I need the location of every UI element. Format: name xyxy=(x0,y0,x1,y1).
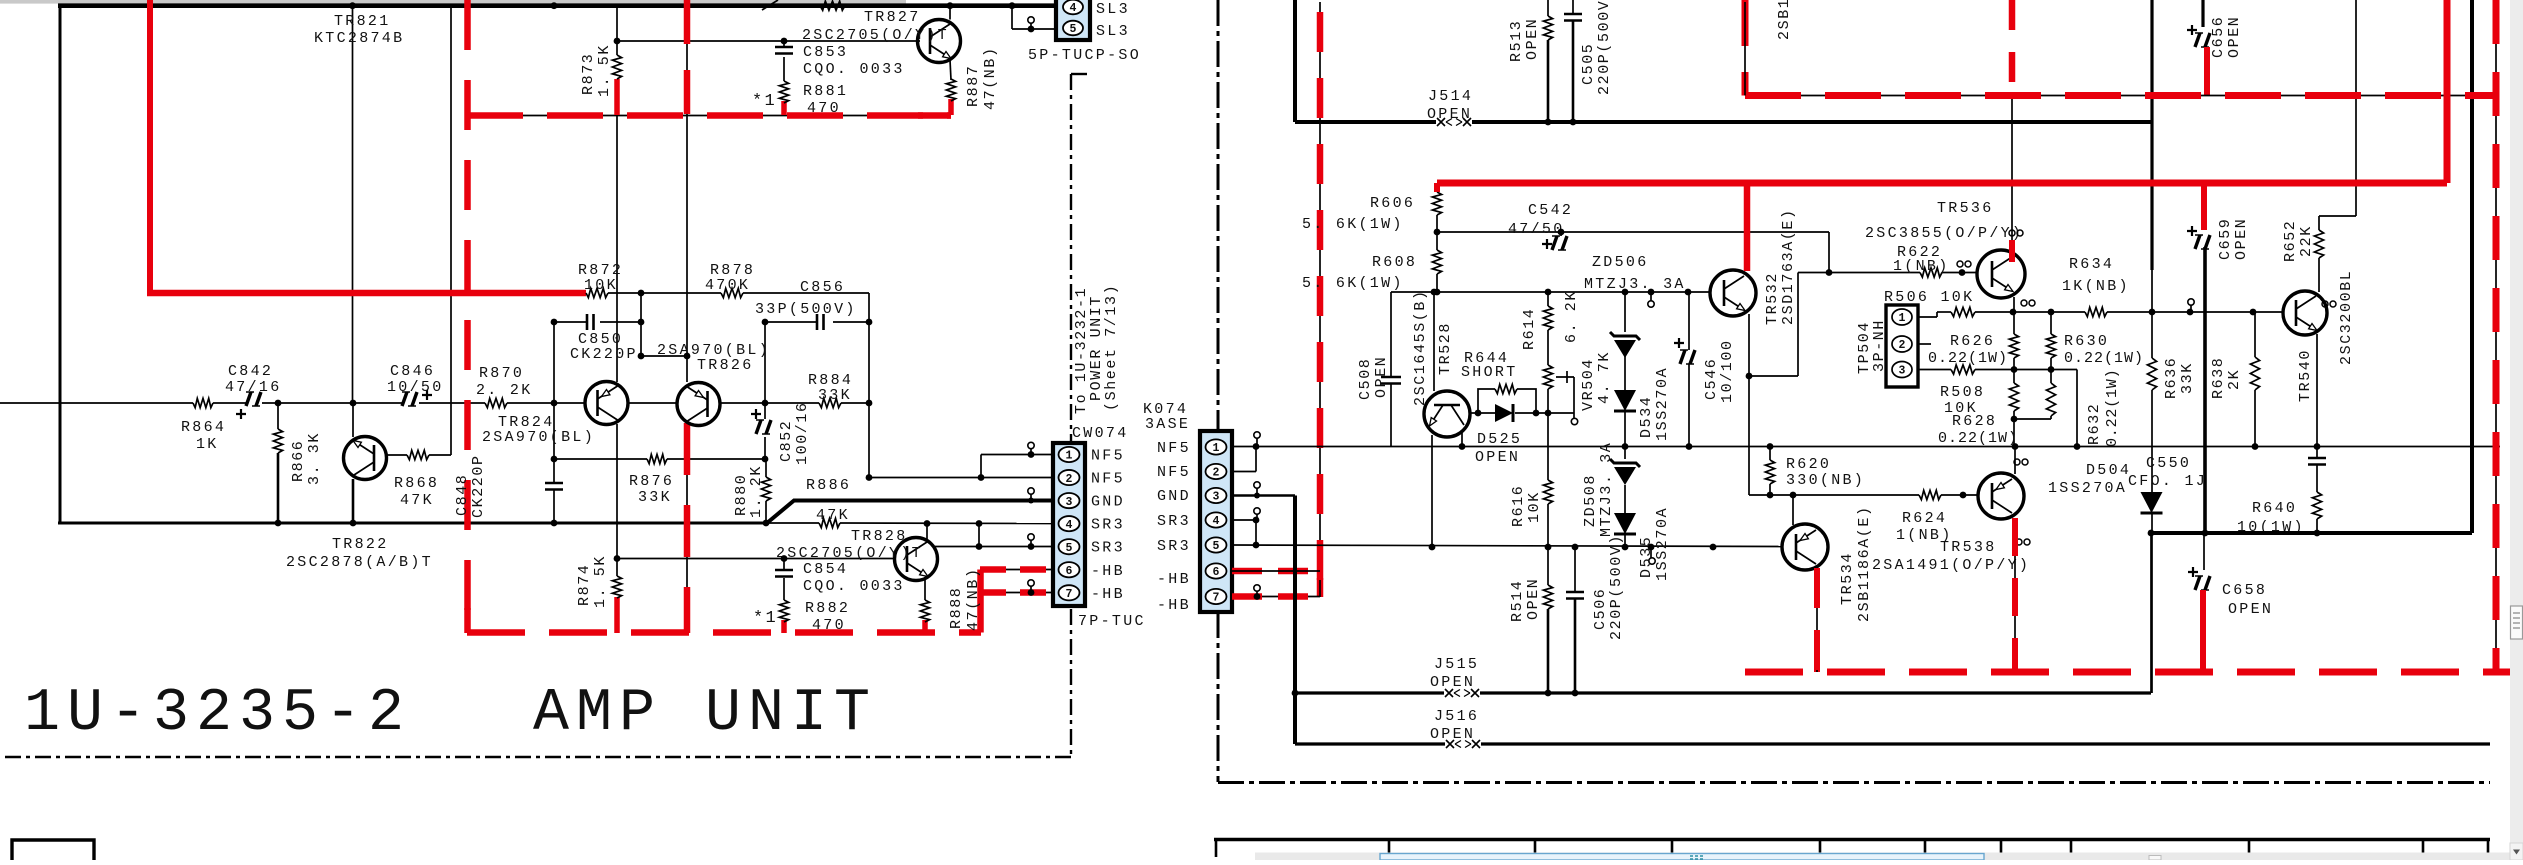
top edge gray strip (previous sheet remnant) xyxy=(0,0,906,4)
wire: R872 line y=293 black parts xyxy=(608,292,641,294)
svg-text:R887: R887 xyxy=(965,65,982,107)
svg-text:5: 5 xyxy=(1070,23,1077,36)
wire: y=356 link to TR826 emitter xyxy=(641,355,687,357)
svg-text:2SD1763A(E): 2SD1763A(E) xyxy=(1780,208,1797,325)
wire: R866 chain x=278 xyxy=(277,403,279,429)
junction node at (2014,369.5) xyxy=(2011,366,2018,373)
svg-text:7: 7 xyxy=(1066,588,1073,601)
junction node at (1536,413) xyxy=(1533,410,1540,417)
junction node at (1713,547) xyxy=(1710,544,1717,551)
connector TP504 xyxy=(1886,305,1918,387)
wire: pin5 stub xyxy=(979,546,1053,548)
svg-text:3. 3K: 3. 3K xyxy=(306,432,323,485)
svg-text:0.22(1W): 0.22(1W) xyxy=(2104,369,2121,447)
junction node at (1625,292) xyxy=(1622,289,1629,296)
svg-text:5. 6K(1W): 5. 6K(1W) xyxy=(1302,216,1404,233)
next sheet table top line xyxy=(1214,838,2490,842)
wire: vertical x=2152 (J514 corner / R636 / D504 chain) xyxy=(2150,0,2153,270)
junction node at (2051,312) xyxy=(2048,309,2055,316)
red highlight: R874 tick xyxy=(614,597,620,633)
svg-text:TR822: TR822 xyxy=(332,536,389,553)
wire: pin3 GND to x=1295 xyxy=(1232,494,1295,497)
svg-text:C656: C656 xyxy=(2210,16,2227,58)
svg-text:33K: 33K xyxy=(2179,362,2196,394)
marker pin3 xyxy=(1028,488,1034,494)
red: drop to TR532 xyxy=(1744,183,1751,271)
svg-text:OPEN: OPEN xyxy=(1427,106,1472,123)
red highlight: pin6 wire xyxy=(980,566,1053,573)
resistor R608 xyxy=(1432,250,1441,274)
svg-text:R636: R636 xyxy=(2163,357,2180,399)
junction node at (766,523) xyxy=(763,520,770,527)
wire: vertical x=869 xyxy=(868,293,870,322)
diode D504 xyxy=(2141,492,2163,513)
svg-text:C505: C505 xyxy=(1580,43,1597,85)
red: right dashed riser x=2496 xyxy=(2495,2,2497,672)
capacitor C506 xyxy=(1574,547,1576,592)
svg-text:R876: R876 xyxy=(629,473,674,490)
wire: TR536 collector xyxy=(2011,95,2013,251)
trimmer VR504 xyxy=(1543,365,1552,389)
junction node at (1575,693) xyxy=(1572,690,1579,697)
transistor TR532 xyxy=(1710,270,1756,316)
junction node at (1548,547) xyxy=(1545,544,1552,551)
wire: GND thick vertical x=1295 xyxy=(1293,496,1297,745)
svg-text:R508: R508 xyxy=(1940,384,1985,401)
wire: R614/VR504 chain x=1548 xyxy=(1547,292,1549,306)
red highlight: riser to pins 6/7 xyxy=(977,570,984,633)
svg-text:MTZJ3. 3A: MTZJ3. 3A xyxy=(1598,442,1615,537)
svg-text:OPEN: OPEN xyxy=(1373,356,1390,398)
red highlight: R882 tick xyxy=(781,620,787,633)
transistor TR828 xyxy=(895,538,938,581)
svg-text:1U-3235-2: 1U-3235-2 xyxy=(24,680,411,748)
resistor R628 xyxy=(2013,370,2015,384)
junction node at (2253,312) xyxy=(2250,309,2257,316)
svg-text:C659: C659 xyxy=(2217,218,2234,260)
red: C659 stub xyxy=(2201,183,2207,230)
svg-text:1(NB): 1(NB) xyxy=(1896,527,1953,544)
wire: R620 chain xyxy=(1769,447,1771,461)
resistor R622 xyxy=(1920,268,1942,277)
svg-text:6: 6 xyxy=(1066,565,1073,578)
red highlight: horizontal y=293 to R872 xyxy=(147,290,586,297)
svg-text:R882: R882 xyxy=(805,600,850,617)
junction node at (1651,292) xyxy=(1648,289,1655,296)
resistor R632 xyxy=(2050,370,2052,384)
wire: TR528 base xyxy=(1433,292,1435,391)
junction node at (784,41) xyxy=(781,38,788,45)
junction node at (353,523) xyxy=(350,520,357,527)
resistor R624 xyxy=(1919,490,1941,499)
wire: vertical x=687 TR826 emitter / red path xyxy=(686,2,688,117)
svg-text:D534: D534 xyxy=(1638,396,1655,438)
red highlight: vertical x=150 xyxy=(147,0,153,293)
wire: top supply rail xyxy=(58,3,1056,8)
wire: pin6/7 right black xyxy=(1232,570,1320,572)
capacitor C546 xyxy=(1688,292,1690,350)
scrollbar thumb xyxy=(2511,606,2523,639)
resistor R884 xyxy=(819,398,841,407)
wire: R868 to top rail x=451 xyxy=(450,6,452,455)
junction node at (1295,693) xyxy=(1292,690,1299,697)
wire: pin6/pin7 black under red xyxy=(980,569,1053,571)
capacitor C656 xyxy=(2201,0,2204,27)
svg-text:OPEN: OPEN xyxy=(1430,674,1475,691)
wire: TR536 emitter xyxy=(2013,297,2015,312)
resistor R878 xyxy=(721,288,743,297)
svg-text:C848: C848 xyxy=(454,474,471,516)
junction node at (2077,446.5) xyxy=(2074,443,2081,450)
wire: pin1 link xyxy=(981,454,1053,456)
red highlight: x=1320 dashed xyxy=(1317,12,1324,597)
wire: D525 row y=413 xyxy=(1470,412,1495,414)
wire: x=2152 bottom corner to J515 xyxy=(2150,533,2152,693)
svg-text:R873: R873 xyxy=(580,53,597,95)
svg-text:2: 2 xyxy=(1899,339,1906,352)
wire: TR528 collector down xyxy=(1461,433,1463,447)
marker right pin3 xyxy=(1254,482,1260,488)
capacitor C846 xyxy=(402,392,417,406)
wire: J514 feed vertical x=1295 xyxy=(1293,0,1297,122)
junction node at (1625,446.5) xyxy=(1622,443,1629,450)
wire: vertical x=554 (C850/C848 chain) xyxy=(553,322,555,483)
resistor R887 xyxy=(946,79,955,101)
wire: C850 row y=322 xyxy=(554,321,588,323)
svg-text:100/16: 100/16 xyxy=(794,401,811,465)
svg-text:GND: GND xyxy=(1091,494,1125,511)
svg-text:1SS270A: 1SS270A xyxy=(1654,367,1671,441)
right unit dash-dot border vertical x=1218 xyxy=(1217,0,1220,431)
svg-text:GND: GND xyxy=(1157,488,1191,505)
resistor R880 xyxy=(761,477,770,501)
junction node at (979,523.5) xyxy=(976,520,983,527)
junction node at (1437,232) xyxy=(1434,229,1441,236)
transistor TR822 xyxy=(344,437,387,480)
wire: x=2204 C658 link xyxy=(2203,533,2205,570)
svg-text:AMP UNIT: AMP UNIT xyxy=(533,680,877,748)
junction node at (1770,495) xyxy=(1767,492,1774,499)
svg-text:NF5: NF5 xyxy=(1091,471,1125,488)
wire: vertical x=641 xyxy=(640,293,642,356)
junction node at (765,459) xyxy=(762,456,769,463)
svg-text:J514: J514 xyxy=(1428,88,1473,105)
junction node at (1963,495) xyxy=(1960,492,1967,499)
svg-text:2SA970(BL): 2SA970(BL) xyxy=(482,429,595,446)
wire: TP504 pin2 stub xyxy=(1918,343,1931,345)
svg-text:2SC2878(A/B)T: 2SC2878(A/B)T xyxy=(286,554,433,571)
red: R606 stub xyxy=(1434,183,1440,192)
junction node at (869,322) xyxy=(866,319,873,326)
svg-text:*1: *1 xyxy=(752,92,777,111)
junction node at (617,558.5) xyxy=(614,555,621,562)
svg-text:C842: C842 xyxy=(228,363,273,380)
svg-text:7: 7 xyxy=(1213,592,1220,605)
thick vertical x=2205 xyxy=(2203,247,2207,533)
next sheet corner box bottom-left xyxy=(12,840,94,860)
wire: GND trace to pin3 (thick with diagonal) xyxy=(767,501,1053,524)
marker pin7 xyxy=(1028,580,1034,586)
svg-text:D525: D525 xyxy=(1477,431,1522,448)
red: right riser x=2447 xyxy=(2444,0,2451,183)
transistor TR536 xyxy=(1977,250,2025,298)
svg-text:1. 5K: 1. 5K xyxy=(592,555,609,608)
red: TR536 collector top dashed xyxy=(2009,0,2016,95)
svg-text:C846: C846 xyxy=(390,363,435,380)
svg-text:5P-TUCP-SO: 5P-TUCP-SO xyxy=(1028,47,1141,64)
wire: input line y=403 xyxy=(0,402,193,404)
resistor R506 xyxy=(1951,307,1975,316)
wire: ZD506/D534 chain x=1625 xyxy=(1624,292,1626,332)
resistor R638 xyxy=(2254,312,2256,357)
svg-text:VR504: VR504 xyxy=(1580,358,1597,411)
marker y=292 xyxy=(1648,301,1654,307)
svg-text:33K: 33K xyxy=(638,489,672,506)
junction node at (2051,369.5) xyxy=(2048,366,2055,373)
svg-text:C853: C853 xyxy=(803,44,848,61)
svg-text:C852: C852 xyxy=(778,420,795,462)
svg-text:C658: C658 xyxy=(2222,582,2267,599)
svg-text:6: 6 xyxy=(1213,566,1220,579)
junction node at (554,459) xyxy=(551,456,558,463)
wire+red: TR534 emitter xyxy=(1816,568,1818,672)
scrollbar track xyxy=(2510,0,2523,860)
resistor R872 xyxy=(586,288,608,297)
svg-text:C854: C854 xyxy=(803,561,848,578)
resistor R874 xyxy=(612,576,621,598)
svg-text:R514: R514 xyxy=(1509,580,1526,622)
red highlight: R881 tick xyxy=(781,101,787,115)
svg-text:33P(500V): 33P(500V) xyxy=(755,301,857,318)
connector CW074 7P-TUC xyxy=(1053,443,1085,606)
svg-text:SR3: SR3 xyxy=(1091,517,1125,534)
svg-text:OPEN: OPEN xyxy=(2226,16,2243,58)
wire: y=292 base line xyxy=(1391,291,1710,293)
resistor R888 xyxy=(920,600,929,622)
wire: TR534 collector xyxy=(1792,495,1794,525)
wire: J515 line y=693 xyxy=(1295,691,1444,694)
wire: R513 chain xyxy=(1547,0,1549,16)
svg-text:SL3: SL3 xyxy=(1096,23,1130,40)
junction node at (1793,495) xyxy=(1790,492,1797,499)
red highlight: pin7 wire xyxy=(980,589,1053,596)
svg-text:1: 1 xyxy=(1213,442,1220,455)
svg-text:R614: R614 xyxy=(1521,308,1538,350)
svg-text:R513: R513 xyxy=(1508,20,1525,62)
wire: pin1/pin2 link xyxy=(1255,447,1257,472)
junction node at (1689,446.5) xyxy=(1686,443,1693,450)
junction node at (1012,5.7) xyxy=(1009,2,1016,9)
red highlight: dashed rail y=115 xyxy=(467,112,951,119)
resistor R886 in bus xyxy=(819,518,840,527)
junction node at (1770,446.5) xyxy=(1767,443,1774,450)
red highlight: dashed vertical x=467 xyxy=(464,0,471,633)
svg-text:2SC2705(O/Y)T: 2SC2705(O/Y)T xyxy=(802,27,949,44)
resistor R644 bypass xyxy=(1478,389,1536,413)
wire: R884 row xyxy=(765,402,819,404)
svg-text:R640: R640 xyxy=(2252,500,2297,517)
svg-text:CW074: CW074 xyxy=(1072,425,1129,442)
junction node at (2013,312) xyxy=(2010,309,2017,316)
red highlight: R888 tick xyxy=(922,620,928,633)
svg-text:OPEN: OPEN xyxy=(1430,726,1475,743)
svg-text:R624: R624 xyxy=(1902,510,1947,527)
wire: y=232 line to TR536 base branch xyxy=(1437,231,1829,233)
svg-text:-HB: -HB xyxy=(1091,586,1125,603)
wire: C853/R881 chain x=784 xyxy=(783,41,785,47)
svg-text:2: 2 xyxy=(1066,473,1073,486)
red: C656 to y=95 xyxy=(2204,47,2210,96)
transistor TR534 xyxy=(1782,524,1828,570)
red highlight: bottom dashed rail y=632.5 xyxy=(467,629,981,636)
junction node at (554,5.7) xyxy=(551,2,558,9)
diode D534 xyxy=(1614,390,1636,411)
svg-text:1K: 1K xyxy=(196,436,219,453)
junction node at (1478,413) xyxy=(1475,410,1482,417)
wire: thick y=533 xyxy=(2151,531,2472,535)
svg-text:R620: R620 xyxy=(1786,456,1831,473)
svg-text:3P-NH: 3P-NH xyxy=(1871,319,1888,372)
wire: TP504 pin3 to R508 xyxy=(1918,369,1951,371)
resistor R508 xyxy=(1951,365,1975,374)
svg-text:47(NB): 47(NB) xyxy=(982,46,999,110)
svg-text:CK220P: CK220P xyxy=(470,454,487,518)
capacitor C854 xyxy=(775,570,793,577)
svg-text:OPEN: OPEN xyxy=(1525,578,1542,620)
red riser x=1745 top xyxy=(1742,0,1749,96)
resistor R881 xyxy=(779,81,788,103)
scrollbar down button xyxy=(2510,843,2523,860)
junction node at (2255,446.5) xyxy=(2252,443,2259,450)
svg-text:47K: 47K xyxy=(816,507,850,524)
marker right pin7 xyxy=(1254,585,1260,591)
svg-text:C550: C550 xyxy=(2146,455,2191,472)
resistor R870 xyxy=(485,398,507,407)
wire: bottom ground bus (thick part) xyxy=(58,522,767,525)
svg-text:220P(500V): 220P(500V) xyxy=(1608,534,1625,640)
svg-text:J515: J515 xyxy=(1434,656,1479,673)
svg-text:4: 4 xyxy=(1070,2,1077,15)
red dashed rail y=95.5 xyxy=(1745,92,2496,99)
svg-text:R634: R634 xyxy=(2069,256,2114,273)
transistor TR824 xyxy=(585,382,628,425)
junction node at (617,41) xyxy=(614,38,621,45)
wire: y=369.5 line xyxy=(1975,369,2077,371)
marker below VR504 xyxy=(1573,413,1575,418)
svg-text:47/16: 47/16 xyxy=(225,379,282,396)
wire: TR822 collector to bus xyxy=(352,479,355,523)
svg-text:7P-TUC: 7P-TUC xyxy=(1078,613,1146,630)
junction node at (1432,547) xyxy=(1429,544,1436,551)
svg-text:TR821: TR821 xyxy=(334,13,391,30)
svg-text:TR827: TR827 xyxy=(864,9,921,26)
svg-text:10K: 10K xyxy=(584,277,618,294)
junction node at (641,293) xyxy=(638,290,645,297)
svg-text:R630: R630 xyxy=(2064,333,2109,350)
wire: R514 chain xyxy=(1547,547,1549,585)
junction node at (353,403) xyxy=(350,400,357,407)
resistor R866 xyxy=(273,429,282,453)
junction node at (2151,533) xyxy=(2148,530,2155,537)
svg-text:R864: R864 xyxy=(181,419,226,436)
resistor R634 xyxy=(2085,307,2107,316)
resistor R882 xyxy=(779,600,788,622)
resistor R640 xyxy=(2312,492,2321,519)
junction node at (641,356) xyxy=(638,353,645,360)
red highlight: R887 tick xyxy=(948,99,954,115)
wire: vertical x=617 R873/TR824 chain xyxy=(616,6,618,41)
svg-text:C506: C506 xyxy=(1592,588,1609,630)
svg-text:CK220P: CK220P xyxy=(570,346,638,363)
jumper J514 xyxy=(1437,118,1445,126)
wire: y=312 line xyxy=(1918,316,1937,318)
capacitor C850 xyxy=(587,314,594,330)
junction node at (1548,122) xyxy=(1545,119,1552,126)
resistor R614 xyxy=(1543,306,1552,330)
capacitor C856 xyxy=(817,314,824,330)
red solid rail y=183 xyxy=(1437,180,2447,187)
capacitor C550 xyxy=(2316,447,2318,459)
junction node at (278,523) xyxy=(275,520,282,527)
junction node at (927,523.5) xyxy=(924,520,931,527)
svg-text:1: 1 xyxy=(1899,312,1906,325)
transistor TR528 xyxy=(1424,391,1470,437)
svg-text:SL3: SL3 xyxy=(1096,1,1130,18)
junction node at (1462,446.5) xyxy=(1459,443,1466,450)
junction node at (554,403) xyxy=(551,400,558,407)
junction node at (2205,533) xyxy=(2202,530,2209,537)
connector CWK074 BASE (right) xyxy=(1200,431,1232,612)
junction node at (278,403) xyxy=(275,400,282,407)
wire under red y=95.5 xyxy=(1745,95,2496,97)
junction node at (1688,292) xyxy=(1685,289,1692,296)
wire: TR532 emitter path xyxy=(1748,314,1750,376)
svg-text:5. 6K(1W): 5. 6K(1W) xyxy=(1302,275,1404,292)
junction node at (2015,446.5) xyxy=(2012,443,2019,450)
svg-text:47(NB): 47(NB) xyxy=(965,567,982,631)
resistor R868 xyxy=(407,450,429,459)
marker pin5 xyxy=(1028,534,1034,540)
svg-text:0.22(1W): 0.22(1W) xyxy=(2064,350,2144,367)
svg-text:4. 7K: 4. 7K xyxy=(1596,351,1613,404)
svg-text:220P(500V): 220P(500V) xyxy=(1596,0,1613,95)
svg-text:TR532: TR532 xyxy=(1764,272,1781,325)
junction node at (981,477.5) xyxy=(978,474,985,481)
svg-text:3ASE: 3ASE xyxy=(1145,416,1190,433)
svg-text:2K: 2K xyxy=(2226,369,2243,390)
svg-text:1SS270A: 1SS270A xyxy=(1654,507,1671,581)
junction node at (1575,547) xyxy=(1572,544,1579,551)
svg-text:NF5: NF5 xyxy=(1091,448,1125,465)
svg-text:R632: R632 xyxy=(2086,403,2103,445)
marker pin1 xyxy=(1028,442,1034,448)
junction node at (869,477.5) xyxy=(866,474,873,481)
svg-text:ZD506: ZD506 xyxy=(1592,254,1649,271)
svg-text:R868: R868 xyxy=(394,475,439,492)
red corner patches xyxy=(918,112,951,119)
wire: TR827 emitter to R887 xyxy=(950,60,951,80)
transistor TR825 stub arrow xyxy=(762,0,778,10)
svg-text:D535: D535 xyxy=(1638,536,1655,578)
wire: TR536 base line y=272.5 xyxy=(1798,272,1920,274)
svg-text:R608: R608 xyxy=(1372,254,1417,271)
junction node at (950,5.7) xyxy=(947,2,954,9)
red highlight: x=687 upper xyxy=(684,0,691,115)
wire: base line y=41 to TR827 xyxy=(617,40,920,42)
capacitor C505 xyxy=(1572,0,1574,14)
svg-text:R606: R606 xyxy=(1370,195,1415,212)
svg-text:3: 3 xyxy=(1066,496,1073,509)
